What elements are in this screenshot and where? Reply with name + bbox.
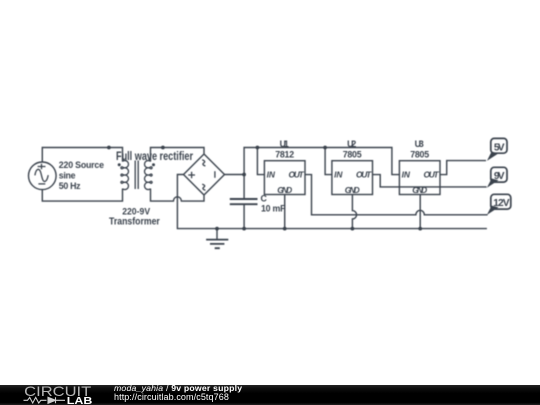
svg-text:U2: U2 [347, 139, 356, 149]
junction dot U2 IN rail [323, 146, 327, 150]
wire U3 GND to rail [419, 195, 421, 229]
svg-text:OUT: OUT [289, 170, 305, 180]
svg-text:GND: GND [345, 185, 360, 195]
transformer primary phase dot [118, 163, 121, 166]
flag 12V box [491, 194, 511, 209]
capacitor C plates [230, 199, 258, 204]
svg-text:Full wave rectifier: Full wave rectifier [116, 149, 193, 163]
svg-text:Transformer: Transformer [109, 217, 160, 228]
junction dot U1 IN rail [256, 146, 260, 150]
rectifier bridge diamond [184, 154, 225, 195]
svg-text:U3: U3 [415, 139, 424, 149]
junction dot ground rail at ground [215, 227, 219, 231]
rectifier - symbol [214, 171, 216, 178]
logo diode [48, 397, 65, 403]
svg-text:5V: 5V [494, 142, 505, 153]
svg-text:12V: 12V [493, 198, 509, 209]
rectifier ~ symbol bottom [202, 184, 205, 190]
svg-text:GND: GND [277, 185, 292, 195]
svg-text:OUT: OUT [424, 170, 440, 180]
wire U2 GND to rail (hop over 12V wire) [352, 195, 356, 229]
junction dot rectifier output node [242, 173, 246, 177]
svg-text:GND: GND [412, 185, 427, 195]
wire node riser and top rail to U3 IN [244, 148, 399, 175]
ground symbol [216, 229, 218, 240]
wire secondary bottom to rectifier (hop over vertical) [151, 189, 205, 202]
svg-text:C: C [261, 193, 268, 203]
svg-text:IN: IN [334, 170, 343, 180]
svg-text:10 mF: 10 mF [261, 204, 286, 214]
junction dot top wire 1 [107, 146, 111, 150]
svg-text:OUT: OUT [356, 170, 372, 180]
svg-text:7805: 7805 [343, 149, 362, 159]
wire rectifier - to node [225, 174, 245, 176]
wire U1 OUT to 12V (hop over U3 GND) [305, 175, 488, 215]
svg-text:sine: sine [59, 170, 76, 180]
regulator U3 box [399, 161, 440, 195]
voltage source V1 plus [38, 164, 46, 170]
flag 9V box [491, 167, 507, 182]
junction dot top wire 2 [161, 146, 165, 150]
svg-text:50 Hz: 50 Hz [59, 181, 81, 191]
flag 12V tail [487, 206, 499, 215]
flag 5V tail [487, 152, 499, 161]
footer bar [0, 385, 540, 405]
wire source top to transformer primary [42, 148, 122, 163]
transformer T1 primary winding [121, 161, 129, 190]
voltage source V1 sine [35, 169, 48, 181]
svg-text:220 Source: 220 Source [59, 160, 104, 170]
wire source bottom to transformer primary [42, 189, 122, 202]
wire secondary top to rectifier [151, 148, 205, 162]
junction dot ground rail at U2 GND [351, 227, 355, 231]
wire U1 IN drop [257, 148, 264, 175]
regulator U1 box [264, 161, 305, 195]
regulator U2 box [332, 161, 373, 195]
svg-text:LAB: LAB [67, 396, 93, 405]
svg-text:U1: U1 [280, 139, 289, 149]
wire U2 IN drop [325, 148, 332, 175]
wire U1 GND to rail [284, 195, 286, 229]
wire U3 OUT to 5V [440, 161, 486, 175]
svg-text:IN: IN [402, 170, 411, 180]
flag 9V tail [487, 179, 499, 188]
voltage source V1 circle [29, 162, 57, 190]
voltage source V1 minus [38, 183, 45, 185]
logo resistor zigzag [24, 397, 47, 403]
rectifier ~ symbol top [202, 160, 205, 166]
footer url line [114, 392, 229, 402]
svg-text:9V: 9V [494, 171, 505, 182]
wire node to capacitor [243, 175, 245, 229]
circuitlab logo [0, 385, 100, 405]
junction dot ground rail at cap [242, 227, 246, 231]
wire rectifier + to ground rail (left vertical + bottom rail) [177, 175, 487, 229]
svg-text:7812: 7812 [275, 149, 294, 159]
wire U2 OUT to 9V [373, 175, 487, 187]
junction dot ground rail at U1 GND [283, 227, 287, 231]
footer title line [114, 383, 242, 393]
flag 5V box [491, 138, 507, 153]
svg-text:7805: 7805 [410, 149, 429, 159]
transformer T1 secondary winding [145, 161, 153, 190]
transformer secondary phase dot [152, 163, 155, 166]
rectifier + symbol [188, 172, 195, 179]
transformer T1 core [135, 161, 138, 190]
junction dot ground rail at U3 GND [418, 227, 422, 231]
svg-text:IN: IN [267, 170, 276, 180]
